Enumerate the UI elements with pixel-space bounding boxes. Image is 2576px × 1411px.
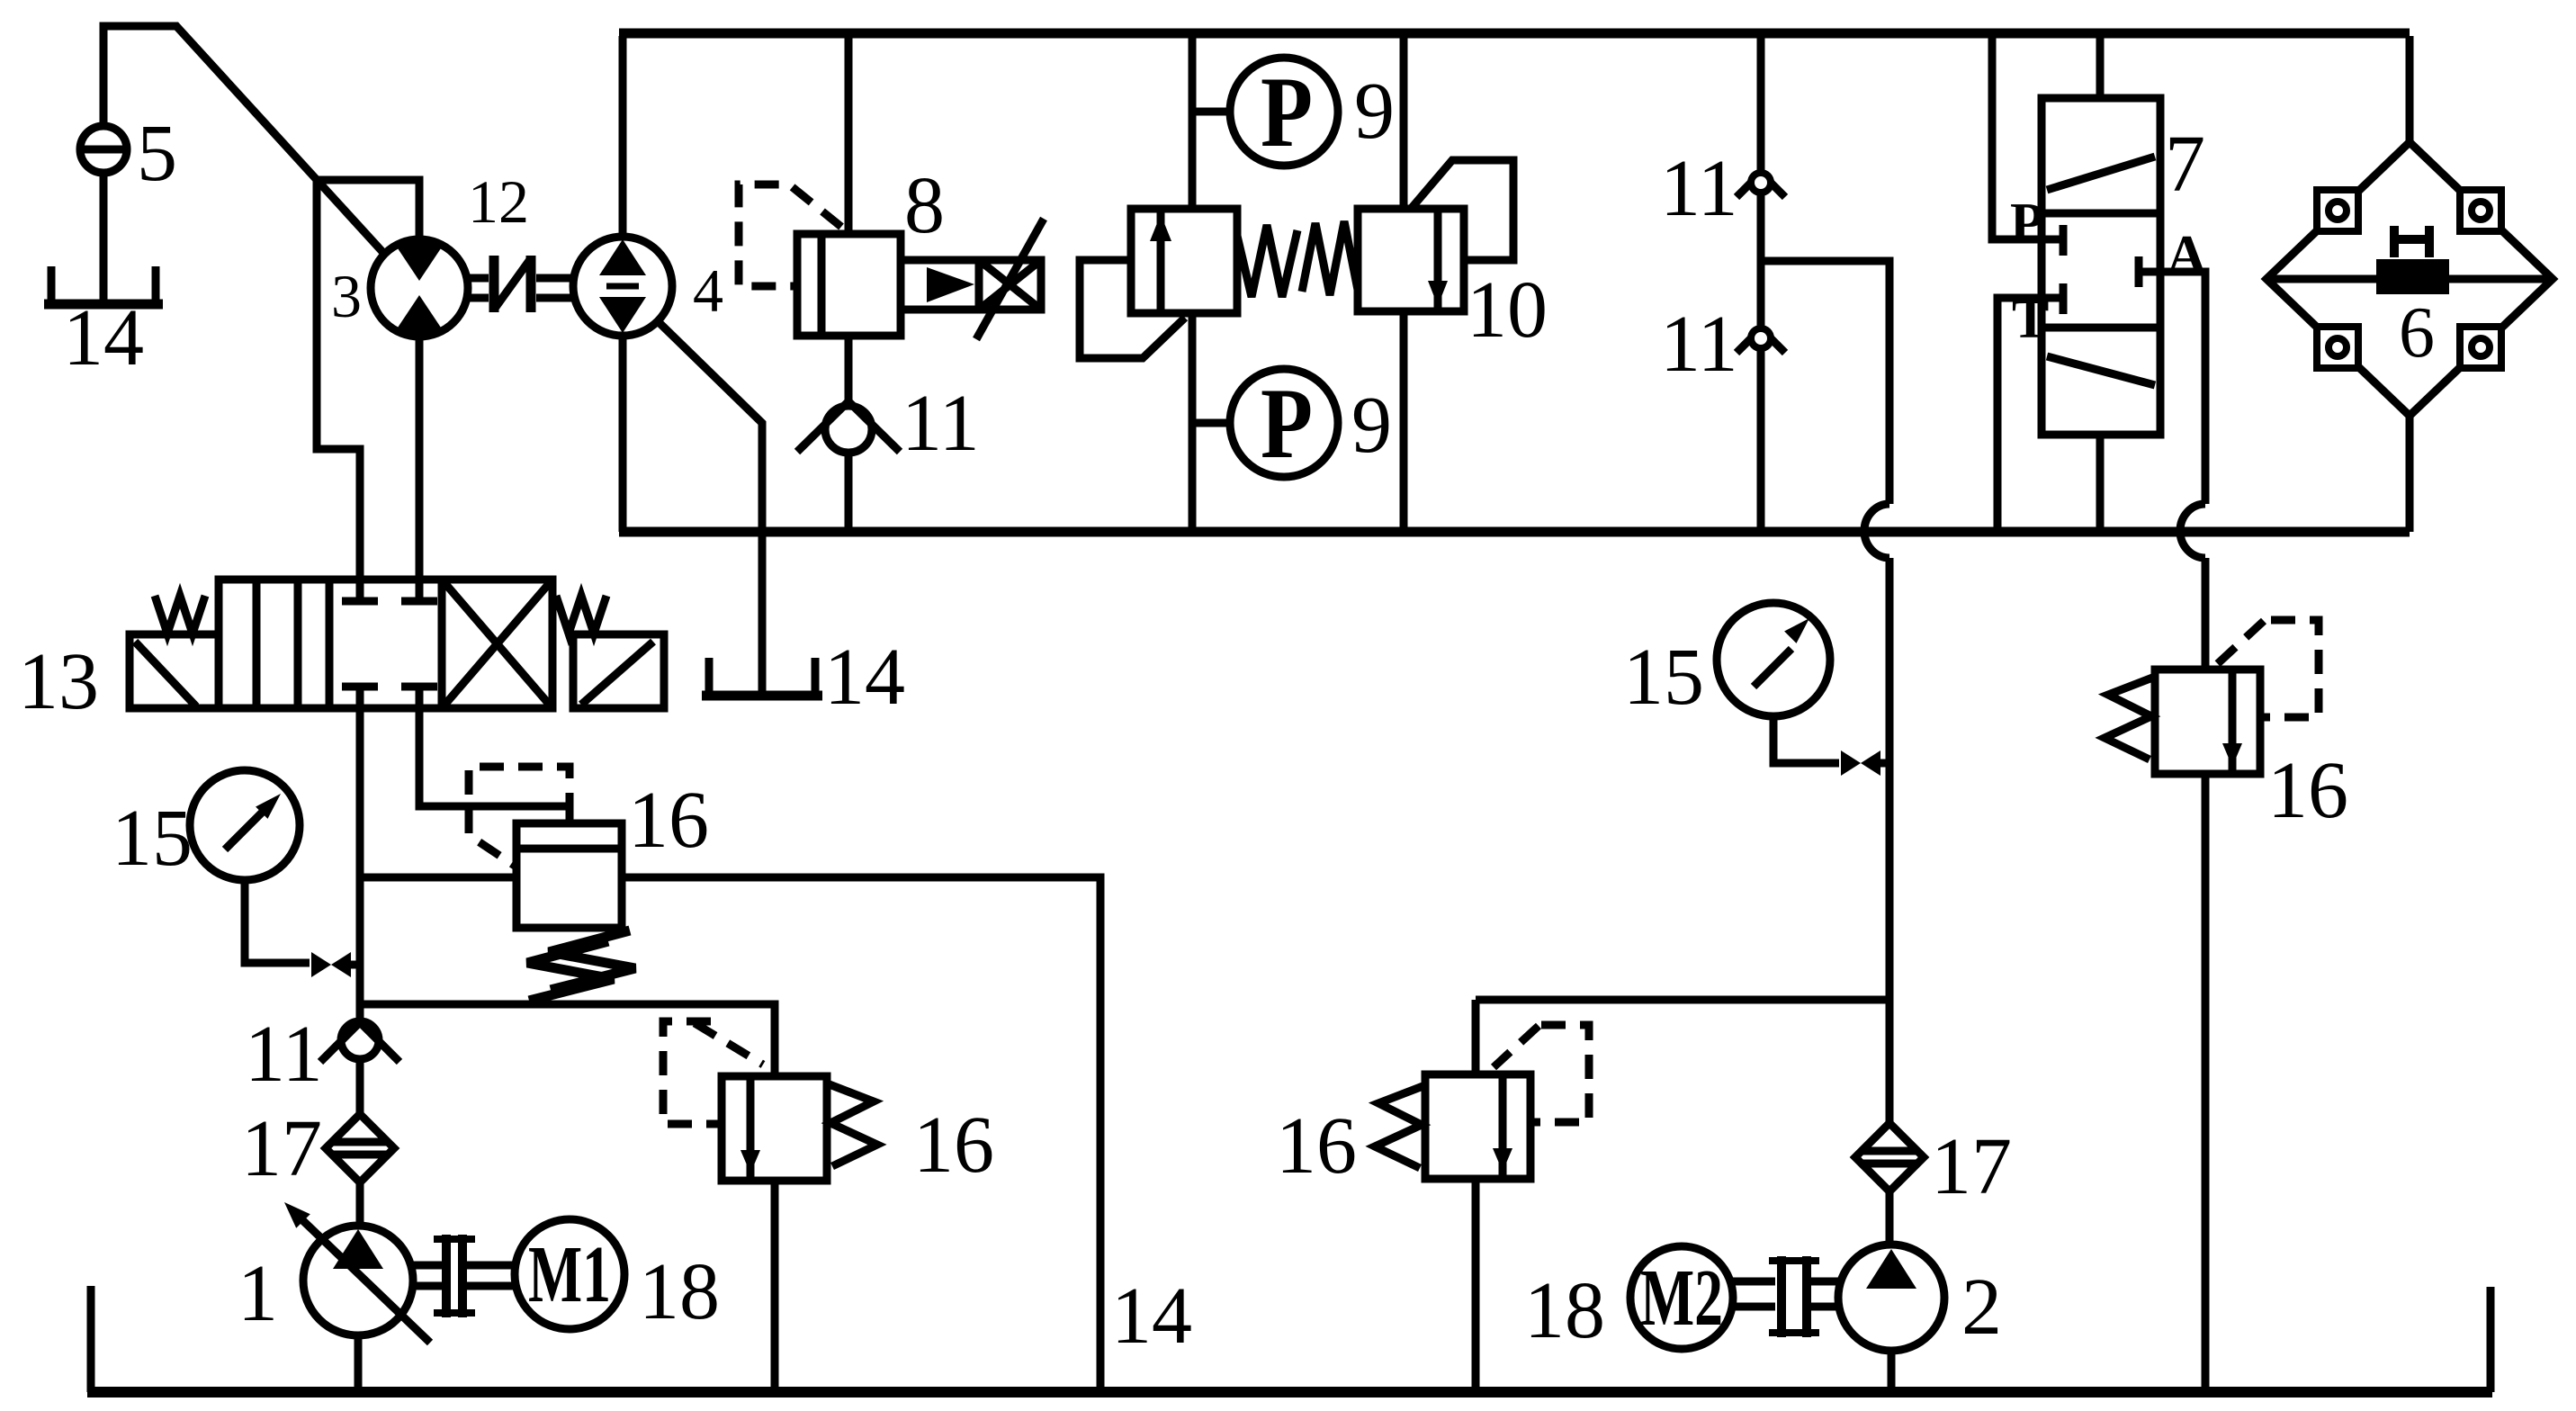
svg-text:9: 9: [1354, 67, 1395, 156]
svg-text:15: 15: [112, 794, 193, 883]
svg-text:P: P: [2010, 193, 2044, 254]
svg-text:A: A: [2167, 225, 2207, 286]
svg-text:7: 7: [2165, 120, 2205, 209]
svg-text:T: T: [2012, 289, 2049, 350]
svg-text:16: 16: [1276, 1101, 1357, 1191]
svg-text:15: 15: [1623, 633, 1704, 722]
svg-text:18: 18: [639, 1247, 720, 1336]
svg-text:12: 12: [468, 167, 529, 236]
svg-text:8: 8: [904, 161, 945, 250]
svg-text:18: 18: [1524, 1266, 1605, 1355]
svg-text:11: 11: [1660, 300, 1738, 389]
svg-text:3: 3: [331, 262, 362, 330]
svg-text:11: 11: [902, 379, 980, 468]
svg-text:17: 17: [1931, 1122, 2012, 1211]
svg-text:6: 6: [2399, 293, 2435, 373]
svg-text:P: P: [1261, 368, 1313, 480]
svg-text:10: 10: [1467, 265, 1548, 355]
svg-text:14: 14: [824, 633, 905, 722]
svg-text:13: 13: [18, 637, 99, 726]
svg-text:14: 14: [63, 293, 144, 382]
svg-text:16: 16: [628, 776, 709, 865]
svg-text:5: 5: [137, 109, 177, 198]
svg-text:9: 9: [1351, 381, 1392, 470]
svg-text:P: P: [1261, 57, 1313, 168]
svg-text:11: 11: [1660, 144, 1738, 233]
svg-text:M1: M1: [528, 1230, 611, 1319]
svg-text:16: 16: [2267, 746, 2348, 835]
svg-text:1: 1: [238, 1249, 278, 1338]
svg-text:14: 14: [1111, 1272, 1192, 1361]
svg-text:2: 2: [1961, 1263, 2002, 1352]
svg-text:M2: M2: [1640, 1254, 1723, 1343]
svg-text:16: 16: [913, 1101, 994, 1190]
svg-text:17: 17: [241, 1104, 322, 1193]
svg-text:11: 11: [245, 1010, 323, 1099]
svg-text:4: 4: [693, 256, 723, 325]
